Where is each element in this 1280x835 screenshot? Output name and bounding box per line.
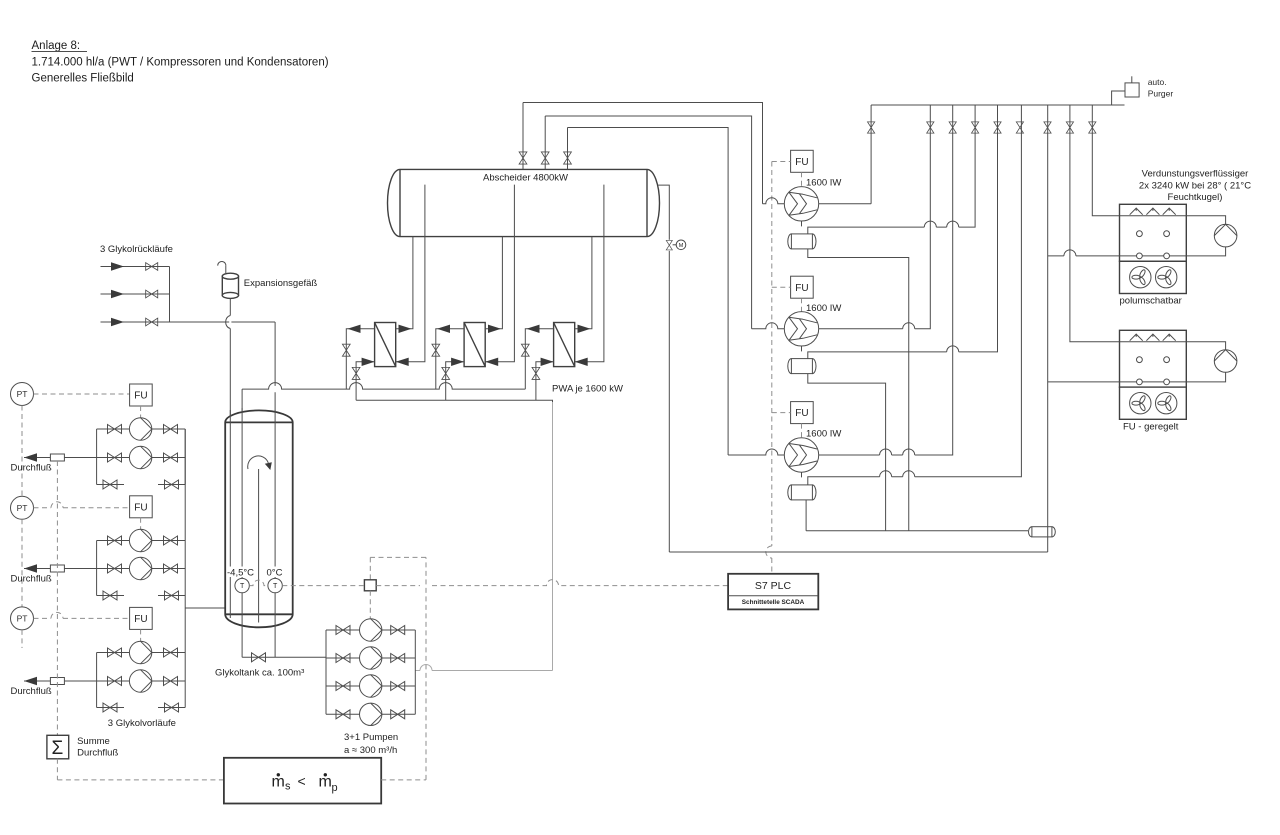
svg-text:Generelles Fließbild: Generelles Fließbild (32, 73, 134, 85)
pump P2.2 (129, 557, 151, 579)
valve main row4 right (391, 710, 405, 719)
svg-text:FU - geregelt: FU - geregelt (1123, 422, 1179, 433)
compressor U2 (784, 312, 818, 346)
valve group2 row2 right (164, 564, 178, 573)
valve PWA2 outlet (432, 344, 440, 356)
condenser 2 spray header (1120, 341, 1187, 343)
summator box Summe Durchfluss (47, 735, 69, 759)
valve group3 bypass left (103, 703, 117, 712)
wire hot gas bus (871, 104, 1124, 106)
valve discharge 2 (927, 122, 934, 133)
wire discharge3 jumps (880, 449, 915, 455)
wire condenser2 liquid out (1048, 381, 1120, 383)
valve inlet 1 (146, 263, 158, 271)
pump P1.2 (129, 446, 151, 468)
wire tank internal drop T1 (241, 408, 243, 578)
tank circulation arrow (248, 456, 269, 469)
wire dashed to FU2 (772, 286, 791, 288)
wire vessel top riser 2 (544, 116, 546, 169)
wire tank outlet header (242, 656, 326, 658)
oil separator 2 (788, 359, 816, 374)
valve group3 bypass right (165, 703, 179, 712)
wire condenser2 spray pump loop top (1186, 342, 1225, 350)
wire expansion drop jump over return header (226, 316, 231, 329)
wire dashed PT2 to FU2 (34, 502, 130, 508)
wire condenser1 spray pump loop bottom (1186, 247, 1225, 256)
spray pump 2 (1214, 350, 1237, 373)
condenser 1 body (1120, 204, 1187, 261)
wire group2 row2 (97, 568, 186, 570)
wire PWA2 bottom-left feed (446, 362, 464, 400)
wire warm return bus A (242, 383, 525, 389)
valve discharge 1 (868, 122, 875, 133)
svg-text:3 Glykolrückläufe: 3 Glykolrückläufe (100, 244, 173, 255)
svg-text:Durchfluß: Durchfluß (11, 574, 52, 585)
wire expansion vessel drop into tank (229, 329, 231, 619)
valve discharge 3 (949, 122, 956, 133)
label -4,5C (227, 567, 257, 579)
FU box group 1 (130, 384, 153, 406)
valve PWA2 feed (442, 367, 450, 379)
heat exchanger PWA3 (554, 323, 575, 367)
fan 1a (1130, 267, 1151, 288)
pump main P3 (360, 675, 382, 697)
svg-text:Abscheider 4800kW: Abscheider 4800kW (483, 173, 568, 184)
node PT2 pressure transmitter (11, 496, 34, 519)
wire main pump row 3 (326, 685, 415, 687)
wire dashed down to square (369, 557, 371, 579)
wire separator2 gas jump (947, 346, 959, 352)
svg-text:s: s (285, 781, 291, 793)
wire group2 suction bus (96, 541, 98, 596)
wire dashed FU3 to pump (140, 629, 142, 641)
oil cooler capsule (1029, 527, 1056, 537)
valve group3 row1 right (164, 648, 178, 657)
svg-text:auto.: auto. (1148, 77, 1167, 87)
valve group1 row2 right (164, 453, 178, 462)
wire vessel top riser 3 (567, 128, 569, 170)
svg-text:<: < (298, 773, 306, 789)
wire PWA3 top-right to vessel (575, 237, 592, 329)
valve group3 row1 left (108, 648, 122, 657)
arrow inlet 3 (111, 318, 124, 326)
wire discharge riser 1 (870, 105, 872, 204)
wire liquid jump over cond2 feed (1064, 250, 1076, 256)
condenser 1 fan box (1120, 261, 1187, 293)
wire main pump row 4 (326, 713, 415, 715)
valve inlet 2 (146, 290, 158, 298)
valve condenser2 feed (1066, 122, 1073, 133)
wire PWA2 top-left outlet (436, 329, 464, 389)
arrow PWA1 bottom-right in (396, 358, 409, 366)
wire compressor2 discharge (819, 105, 931, 329)
wire suction bracket 1 (523, 103, 763, 204)
valve main row1 left (336, 626, 350, 635)
wire vessel dip tube 1 to PWA1 (396, 185, 425, 362)
FU box group 2 (130, 496, 153, 518)
valve group3 row2 left (108, 677, 122, 686)
wire flow line 2 (24, 568, 97, 570)
PLC box (728, 574, 818, 610)
wire tank bottom out right (274, 593, 276, 658)
valve group1 row2 left (108, 453, 122, 462)
wire condenser liquid riser (1047, 105, 1049, 552)
wire discharge bus to tank (185, 607, 225, 609)
valve group2 bypass left (103, 591, 117, 600)
wire group2 bypass left stub (97, 595, 124, 597)
wire glycol return inlet 3 (101, 321, 230, 323)
arrow inlet 2 (111, 290, 124, 298)
oil separator 1 (788, 234, 816, 249)
wire group3 row2 (97, 680, 186, 682)
wire dashed T1 to T2 (249, 580, 268, 586)
valve group2 row1 right (164, 536, 178, 545)
valve condenser riser (1044, 122, 1051, 133)
wire cold supply bus B (356, 400, 552, 402)
svg-text:p: p (332, 782, 338, 794)
wire grey pump riser (552, 402, 554, 671)
FU box group 3 (130, 607, 153, 629)
valve inlet 3 (146, 318, 158, 326)
pump P3.1 (129, 641, 151, 663)
svg-text:M: M (679, 243, 684, 249)
wire vessel dip tube 3 to PWA3 (575, 185, 604, 362)
valve equalizer 3 (1016, 122, 1023, 133)
wire main pump row 2 (326, 657, 415, 659)
wire dashed FU2 to compressor (801, 298, 803, 311)
wire dashed FU1 to compressor (801, 172, 803, 186)
valve vessel top 3 (564, 152, 572, 164)
svg-text:Durchfluß: Durchfluß (11, 686, 52, 697)
condenser 1 spray header (1120, 215, 1187, 217)
wire group1 bypass left stub (97, 484, 124, 486)
wire group1 bypass right stub (158, 484, 185, 486)
control square box (364, 580, 376, 591)
flow meter FT2 (50, 565, 64, 572)
wire main pump row 1 (326, 629, 415, 631)
wire grey pump discharge run (415, 665, 552, 671)
wire condenser2 top feed (1070, 105, 1120, 342)
compressor 3 suction (728, 449, 784, 455)
wire dashed to FU1 (772, 161, 791, 163)
wire suction bracket 2 (545, 116, 751, 329)
arrow PWA2 bottom-left in (451, 358, 464, 366)
wire tank drop 0C (274, 322, 276, 386)
wire common discharge bus groups 1-3 (184, 429, 186, 708)
valve main row2 left (336, 654, 350, 663)
wire glycol return inlet 2 (101, 293, 170, 295)
wire group3 suction bus (96, 653, 98, 708)
wire dashed PT3 to FU3 (34, 612, 130, 618)
arrow PWA3 bottom-right in (575, 358, 588, 366)
svg-text:Verdunstungsverflüssiger: Verdunstungsverflüssiger (1142, 169, 1249, 180)
wire liquid header (669, 551, 1047, 553)
valve group2 row1 left (108, 536, 122, 545)
wire separator3 oil down (805, 500, 807, 531)
pump main P2 (360, 647, 382, 669)
wire dashed sigma down (56, 759, 58, 780)
wire PWA3 top-left outlet (525, 329, 553, 389)
svg-text:1600 IW: 1600 IW (806, 429, 841, 440)
fan 1b (1156, 267, 1177, 288)
arrow PWA2 top-right (488, 325, 501, 333)
valve PWA3 outlet (521, 344, 529, 356)
wire dashed formula box to riser (381, 779, 426, 781)
svg-text:Feuchtkugel): Feuchtkugel) (1168, 192, 1223, 203)
purger vent tick (1131, 76, 1133, 83)
svg-text:Expansionsgefäß: Expansionsgefäß (244, 278, 318, 289)
wire dashed FU1 to pump (140, 406, 142, 418)
wire condenser1 liquid out (1048, 255, 1120, 257)
svg-text:Summe: Summe (77, 736, 110, 747)
wire separator1 oil out (808, 249, 909, 531)
condenser 1 bottom line (1120, 255, 1187, 257)
title underline (32, 51, 88, 53)
valve main row4 left (336, 710, 350, 719)
pump P2.1 (129, 529, 151, 551)
svg-text:Durchfluß: Durchfluß (77, 748, 118, 759)
flow meter FT3 (50, 678, 64, 685)
node PT1 pressure transmitter (11, 383, 34, 406)
arrow PWA1 bottom-left in (362, 358, 375, 366)
wire group3 bypass right stub (158, 707, 185, 709)
spray nozzles condenser 1 (1130, 208, 1143, 215)
wire group3 bypass left stub (97, 707, 124, 709)
vessel Abscheider 4800kW (388, 169, 660, 236)
FU box compressor 1 (791, 150, 814, 172)
wire group1 row2 (97, 457, 186, 459)
wire return header to tank drop (231, 321, 275, 323)
wire group2 bypass right stub (158, 595, 185, 597)
wire dashed below PT3 (21, 630, 23, 648)
svg-text:PWA je 1600 kW: PWA je 1600 kW (552, 384, 623, 395)
wire glycol return inlet 1 (101, 266, 170, 268)
valve group1 row1 right (164, 425, 178, 434)
wire condenser1 spray pump loop top (1186, 216, 1225, 225)
svg-text:Durchfluß: Durchfluß (11, 463, 52, 474)
arrow PWA3 bottom-left in (541, 358, 554, 366)
spray pump 1 (1214, 224, 1237, 247)
svg-text:1600 IW: 1600 IW (806, 178, 841, 189)
compressor U3 (784, 438, 818, 472)
wire separator1 gas jumps (924, 221, 958, 227)
wire dashed top to square (370, 556, 426, 558)
svg-text:1.714.000 hl/a (PWT / Kompress: 1.714.000 hl/a (PWT / Kompressoren und K… (32, 57, 329, 69)
valve main row2 right (391, 654, 405, 663)
wire compressor3 to separator (801, 472, 803, 477)
valve equalizer 2 (994, 122, 1001, 133)
oil separator 3 (788, 485, 816, 500)
wire main pump suction bus (325, 630, 327, 714)
wire tank drop 0C lower (274, 392, 276, 578)
wire dashed FU column compressors (766, 162, 772, 574)
expansion vessel Expansionsgefaess (222, 273, 238, 298)
valve group3 row2 right (164, 677, 178, 686)
svg-text:3+1 Pumpen: 3+1 Pumpen (344, 732, 398, 743)
wire separator3 gas jumps (880, 471, 915, 477)
svg-text:-4,5°C: -4,5°C (227, 568, 254, 579)
purger box (1125, 83, 1139, 97)
wire group1 suction bus (96, 429, 98, 485)
label 0C (267, 567, 287, 579)
svg-text:a ≈ 300 m³/h: a ≈ 300 m³/h (344, 745, 397, 756)
svg-text:2x 3240 kW bei 28° ( 21°C: 2x 3240 kW bei 28° ( 21°C (1139, 181, 1251, 192)
svg-text:polumschatbar: polumschatbar (1120, 296, 1182, 307)
wire dashed sigma to formula box (57, 779, 224, 781)
wire vessel outlet to motor valve (658, 185, 669, 240)
compressor 1 suction (763, 198, 785, 204)
wire condenser2 spray pump loop bottom (1186, 372, 1225, 382)
wire dashed flowmeter column (56, 461, 58, 735)
wire bus A drop to tank (241, 389, 243, 578)
formula box (224, 758, 381, 804)
FU box compressor 2 (791, 276, 814, 298)
wire purger step (1112, 91, 1125, 105)
tank Glykoltank (225, 410, 293, 627)
valve PWA3 feed (532, 367, 540, 379)
wire dashed square to PLC (376, 580, 728, 586)
valve vessel top 2 (541, 152, 549, 164)
wire separator2 oil out (808, 374, 886, 531)
wire main pump discharge bus (414, 630, 416, 714)
wire dashed PT1 to FU1 (34, 393, 130, 395)
svg-text:Σ: Σ (52, 738, 64, 759)
svg-text:3 Glykolvorläufe: 3 Glykolvorläufe (108, 718, 176, 729)
wire vessel top riser 1 (522, 103, 524, 170)
svg-text:Schnittetelle SCADA: Schnittetelle SCADA (742, 599, 805, 606)
valve tank outlet (252, 653, 266, 662)
wire separator2 gas out (808, 105, 998, 359)
wire tank internal expansion line (229, 410, 231, 618)
wire dashed T2 to square (282, 585, 364, 587)
pump P3.2 (129, 670, 151, 692)
arrow flow 1 out (24, 453, 37, 461)
compressor 2 suction (752, 323, 785, 329)
flow meter FT1 (50, 454, 64, 461)
wire compressor2 to separator (801, 346, 803, 351)
valve group2 bypass right (165, 591, 179, 600)
valve vessel top 1 (519, 152, 527, 164)
wire flow line 3 (24, 680, 97, 682)
wire suction bracket 3 (568, 128, 729, 456)
wire tank bottom out left (241, 593, 243, 658)
sensor T1 (235, 578, 249, 592)
condenser 1 tube dots (1137, 231, 1170, 259)
valve group1 row1 left (108, 425, 122, 434)
wire dashed square to pump 1 (369, 591, 371, 619)
valve group1 bypass right (165, 480, 179, 489)
wire vessel dip tube 2 to PWA2 (485, 185, 514, 362)
wire PWA1 top-left outlet (346, 329, 374, 389)
wire dashed riser to pump control loop (425, 557, 427, 780)
wire condenser1 top feed (1092, 105, 1119, 216)
wire expansion vessel drop upper (229, 298, 231, 315)
svg-text:0°C: 0°C (267, 568, 283, 579)
condenser 2 tube dots (1137, 357, 1170, 385)
wire dashed FU2 to pump (140, 518, 142, 529)
svg-text:1600 IW: 1600 IW (806, 303, 841, 314)
wire compressor3 discharge (819, 105, 953, 455)
wire PWA3 bottom-left feed (536, 362, 554, 400)
wire compressor1 to separator (801, 221, 803, 226)
arrow PWA2 bottom-right in (485, 358, 498, 366)
compressor U1 (784, 187, 818, 221)
pump main P4 (360, 703, 382, 725)
node PT3 pressure transmitter (11, 607, 34, 630)
wire flow line 1 (24, 457, 97, 459)
wire group2 row1 (97, 540, 186, 542)
wire tank circulation dip tube (258, 469, 260, 623)
valve motorised expansion (666, 240, 672, 250)
arrow PWA1 top-right (399, 325, 412, 333)
valve group2 row2 left (108, 564, 122, 573)
condenser 2 fan box (1120, 387, 1187, 419)
spray nozzles condenser 2 (1130, 334, 1143, 341)
label formula ms < mp (272, 773, 338, 794)
arrow PWA1 top-left (348, 325, 361, 333)
wire discharge2 jump (903, 323, 915, 329)
wire return collector vertical (169, 267, 171, 323)
wire oil header (806, 530, 1028, 532)
wire dashed PT column PT1-PT2 (21, 406, 23, 497)
pump P1.1 (129, 418, 151, 440)
wire dashed PT column PT2-PT3 (21, 519, 23, 607)
valve group1 bypass left (103, 480, 117, 489)
valve PWA1 feed (352, 367, 360, 379)
arrow PWA3 top-right (578, 325, 591, 333)
arrow flow 2 out (24, 564, 37, 572)
wire separator1 gas out (808, 105, 975, 234)
fan 2b (1156, 393, 1177, 414)
wire dashed FU3 to compressor (801, 424, 803, 438)
wire PWA1 top-right to vessel (396, 237, 413, 329)
svg-text:Anlage 8:: Anlage 8: (32, 40, 81, 52)
FU box compressor 3 (791, 402, 814, 424)
wire group3 row1 (97, 652, 186, 654)
arrow PWA2 top-left (437, 325, 450, 333)
heat exchanger PWA2 (464, 323, 485, 367)
wire compressor1 discharge (819, 203, 871, 205)
valve condenser1 feed (1089, 122, 1096, 133)
arrow PWA3 top-left (527, 325, 540, 333)
wire tank internal drop T2 (274, 410, 276, 578)
arrow inlet 1 (111, 262, 124, 270)
wire group1 discharge bus (184, 429, 186, 485)
motor actuator M (673, 240, 686, 250)
wire PWA1 bottom-left feed (356, 362, 375, 400)
wire dashed to FU3 (772, 412, 791, 414)
expansion vessel curl (218, 262, 226, 274)
valve PWA1 outlet (342, 344, 350, 356)
fan 2a (1130, 393, 1151, 414)
condenser 2 body (1120, 330, 1187, 387)
pump main P1 (360, 619, 382, 641)
valve equalizer 1 (972, 122, 979, 133)
wire group1 row1 (97, 428, 186, 430)
condenser 2 bottom line (1120, 381, 1187, 383)
valve main row1 right (391, 626, 405, 635)
arrow flow 3 out (24, 677, 37, 685)
valve main row3 left (336, 682, 350, 691)
wire PWA2 top-right to vessel (485, 237, 502, 329)
sensor T2 (268, 578, 282, 592)
valve main row3 right (391, 682, 405, 691)
heat exchanger PWA1 (375, 323, 396, 367)
svg-text:Glykoltank ca. 100m³: Glykoltank ca. 100m³ (215, 668, 304, 679)
wire motor valve drop (668, 251, 670, 552)
svg-text:Purger: Purger (1148, 89, 1174, 99)
svg-text:S7 PLC: S7 PLC (755, 580, 792, 592)
